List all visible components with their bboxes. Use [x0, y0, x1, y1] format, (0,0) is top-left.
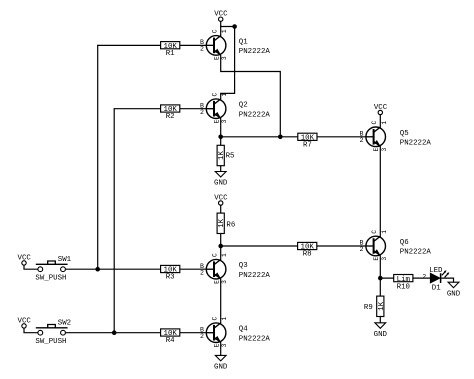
svg-text:R7: R7 [303, 142, 312, 150]
transistor Q2 [200, 92, 270, 123]
svg-text:R4: R4 [166, 337, 175, 345]
wire node row to R8 [221, 245, 298, 247]
svg-text:R2: R2 [166, 113, 175, 121]
svg-text:R1: R1 [166, 50, 175, 58]
transistor Q4 [200, 316, 270, 347]
wire R1 to Q1 base [179, 44, 214, 46]
node junction at VCC branch [232, 24, 237, 29]
wire R7 to Q5 base [317, 136, 373, 138]
wire SW1 to R3 [66, 268, 161, 270]
ground at LED [447, 282, 461, 298]
svg-text:PN2222A: PN2222A [400, 140, 432, 148]
svg-text:1K: 1K [378, 301, 386, 310]
svg-text:SW_PUSH: SW_PUSH [35, 275, 66, 283]
wire R3 to Q3 base [179, 268, 214, 270]
wire Q5 emitter to Q6 collector [379, 147, 381, 237]
svg-text:R6: R6 [226, 221, 235, 229]
wire Q6 emitter to node [379, 256, 381, 278]
transistor Q6 [360, 230, 432, 261]
power flag VCC (SW1) [18, 254, 32, 265]
ground below R5 [214, 172, 228, 188]
wire R10 to LED anode [413, 277, 430, 279]
wire R8 to Q6 base [317, 245, 374, 247]
wire R5 to GND [220, 166, 222, 172]
node junction SW2 / R2 branch [112, 330, 117, 335]
wire node to R10 [380, 277, 394, 279]
resistor R2 [161, 105, 180, 121]
svg-text:PN2222A: PN2222A [239, 111, 271, 119]
wire R2 to Q2 base [179, 108, 214, 110]
wire Q4 emitter to GND [220, 342, 222, 355]
node junction SW1 / R1 branch [95, 267, 100, 272]
resistor R6 [217, 213, 235, 233]
svg-text:PN2222A: PN2222A [400, 249, 432, 257]
wire R6 to node [220, 234, 222, 247]
svg-text:SW1: SW1 [58, 256, 72, 264]
wire node to R9 [379, 278, 381, 296]
svg-text:LED: LED [429, 267, 443, 275]
wire VCC to R6 [220, 205, 222, 214]
svg-text:D1: D1 [432, 284, 441, 292]
node junction R6 / Q3 collector [218, 244, 223, 249]
power flag VCC (Q1 collector) [214, 11, 228, 22]
wire VCC to Q5 collector [379, 115, 381, 128]
resistor R4 [161, 329, 180, 345]
wire R4 to Q4 base [179, 332, 214, 334]
resistor R8 [298, 242, 317, 258]
node junction Q2 emitter / R5 [218, 135, 223, 140]
svg-text:R9: R9 [364, 304, 373, 312]
svg-text:R10: R10 [397, 284, 410, 292]
switch SW1 SW_PUSH [35, 256, 71, 282]
svg-text:R5: R5 [226, 153, 235, 161]
svg-text:PN2222A: PN2222A [239, 272, 271, 280]
wire Q1 emitter jog to R7 node [221, 55, 281, 137]
wire node down to Q3 collector [220, 246, 222, 260]
transistor Q5 [360, 121, 432, 152]
svg-text:Q4: Q4 [239, 326, 248, 334]
power flag VCC (SW2) [18, 317, 32, 328]
wire SW2 node to R2 [114, 108, 161, 110]
wire Q3 emitter to Q4 collector [220, 279, 222, 323]
wire SW2 to R4 [66, 332, 161, 334]
svg-text:Q2: Q2 [239, 102, 248, 110]
wire emitter node row to R7 [221, 136, 298, 138]
wire VCC branch vertical down to Q2 collector [221, 27, 235, 100]
svg-text:SW2: SW2 [58, 320, 71, 328]
wire VCC1 stem / Q1 collector pin [220, 21, 222, 36]
svg-text:Q3: Q3 [239, 262, 248, 270]
ground below R9 [374, 323, 388, 339]
svg-text:SW_PUSH: SW_PUSH [35, 338, 66, 346]
wire VCC elbow to SW1 [24, 265, 38, 269]
power flag VCC (R6) [214, 194, 228, 205]
node junction Q6 emitter / R9 / R10 [378, 276, 383, 281]
wire LED cathode to GND [441, 278, 453, 282]
wire VCC elbow to SW2 [24, 328, 38, 333]
wire vertical SW1 node up to R1 row [97, 45, 99, 269]
wire VCC branch horizontal [221, 26, 235, 28]
svg-text:PN2222A: PN2222A [239, 48, 271, 56]
transistor Q1 [200, 29, 270, 60]
svg-text:Q1: Q1 [239, 38, 248, 46]
node junction Q1 emitter branch [278, 135, 283, 140]
resistor R5 [217, 145, 234, 165]
transistor Q3 [200, 253, 270, 284]
svg-text:2: 2 [422, 273, 426, 280]
ground below Q4 [214, 355, 228, 371]
svg-text:1K: 1K [218, 218, 226, 227]
svg-text:R8: R8 [303, 251, 312, 259]
resistor R3 [161, 265, 180, 281]
svg-text:R3: R3 [166, 274, 175, 282]
svg-text:PN2222A: PN2222A [239, 335, 271, 343]
wire node to R5 [220, 137, 222, 146]
wire Q2 emitter down to node [220, 118, 222, 136]
resistor R7 [298, 133, 317, 149]
resistor R10 [394, 275, 413, 292]
resistor R1 [161, 42, 180, 58]
resistor R9 [364, 296, 386, 316]
wire SW1 node to R1 [98, 44, 161, 46]
svg-text:Q5: Q5 [400, 130, 409, 138]
LED D1 [429, 267, 449, 293]
switch SW2 SW_PUSH [35, 320, 71, 346]
wire vertical SW2 node up to R2 row [113, 109, 115, 333]
power flag VCC (Q5) [374, 104, 388, 115]
svg-text:Q6: Q6 [400, 239, 409, 247]
wire R9 to GND [379, 317, 381, 323]
